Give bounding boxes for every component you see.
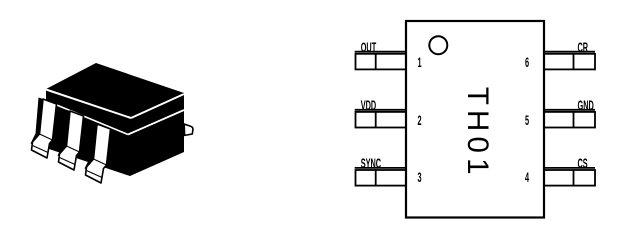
svg-text:CR: CR [578,41,589,56]
svg-text:3: 3 [417,171,421,186]
svg-text:1: 1 [417,56,421,71]
svg-text:4: 4 [525,171,529,186]
svg-text:2: 2 [417,114,421,129]
svg-text:6: 6 [525,56,529,71]
svg-text:5: 5 [525,114,529,129]
svg-text:TH01: TH01 [461,87,494,180]
svg-text:SYNC: SYNC [361,157,381,172]
svg-text:CS: CS [578,157,588,172]
svg-text:GND: GND [578,99,594,114]
svg-text:OUT: OUT [361,41,377,56]
svg-text:VDD: VDD [361,99,377,114]
